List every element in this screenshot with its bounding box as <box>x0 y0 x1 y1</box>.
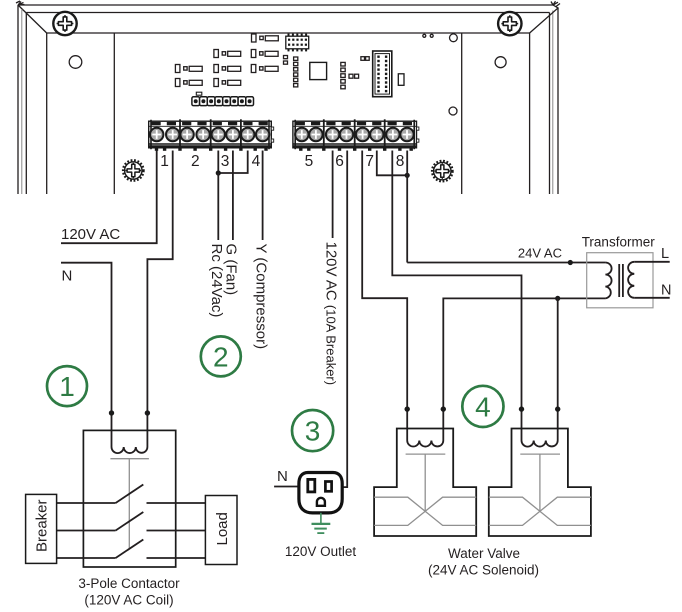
water valve 2 body <box>489 429 591 537</box>
pole 2 wire left <box>57 530 116 532</box>
junction dot valve2 right <box>555 406 560 411</box>
svg-text:N: N <box>62 268 73 285</box>
terminal block TB1 (terminals 1-4) <box>149 120 274 150</box>
jumper terminal 3 to terminal 4 <box>218 151 247 174</box>
water valve 1 stem <box>424 454 426 511</box>
wire valve 2 right <box>557 298 559 440</box>
svg-text:7: 7 <box>365 153 374 170</box>
callout 2 <box>201 336 241 376</box>
svg-text:2: 2 <box>191 153 200 170</box>
junction dot valve1 right <box>441 406 446 411</box>
junction dot transformer bottom <box>555 296 560 301</box>
enclosure inner panel <box>47 33 530 194</box>
transformer secondary winding <box>628 262 634 298</box>
enclosure corner hatch top-left <box>16 1 25 5</box>
smd column right <box>341 62 345 88</box>
load box <box>205 496 237 565</box>
enclosure outer frame <box>18 5 558 194</box>
svg-text:N: N <box>277 468 288 485</box>
enclosure corner hatch top-right <box>551 1 560 6</box>
jumper terminal 7 to terminal 8 <box>377 151 407 176</box>
callout 3 <box>292 410 333 451</box>
wire 120V AC breaker from terminal 6 <box>332 151 334 239</box>
wire N secondary <box>634 297 669 299</box>
outlet neutral slot <box>308 479 315 492</box>
svg-text:G (Fan): G (Fan) <box>223 244 240 296</box>
junction dot jumper 7-8 <box>405 173 410 178</box>
TB1 divider 2|3 <box>210 119 212 150</box>
outlet hot slot <box>325 482 331 492</box>
pcb plate edge left <box>113 33 115 194</box>
terminal block TB2 (terminals 5-8) <box>293 120 419 150</box>
water valve 1 crossover symbol <box>374 497 476 525</box>
component group row1 a <box>214 50 241 58</box>
contactor actuator link <box>128 459 130 549</box>
wire transformer primary bottom to valves <box>443 298 605 440</box>
svg-text:4: 4 <box>475 392 491 423</box>
wire outlet hot from terminal 6 right <box>342 151 347 488</box>
tiny rect above header row <box>196 92 202 95</box>
junction dot contactor coil left <box>109 410 114 415</box>
TB2 divider 7|8 <box>384 119 386 150</box>
water valve 1 solenoid coil <box>407 441 443 447</box>
wire N to outlet <box>274 486 299 488</box>
smd pair b <box>361 57 369 61</box>
svg-text:(24V AC Solenoid): (24V AC Solenoid) <box>428 562 539 577</box>
wire L <box>634 261 669 263</box>
svg-text:Breaker: Breaker <box>34 499 51 552</box>
svg-text:L: L <box>661 246 669 262</box>
TB1 divider 1|2 <box>179 119 181 150</box>
wire 120V AC hot from terminal 1 <box>61 151 157 244</box>
small component right of connector <box>398 74 404 86</box>
svg-text:8: 8 <box>396 153 405 170</box>
panel hole left <box>69 56 82 69</box>
svg-text:N: N <box>661 283 671 299</box>
TB2 screws <box>295 128 414 141</box>
transformer core <box>619 264 623 297</box>
capacitor pair small <box>284 56 288 65</box>
svg-text:Rc (24Vac): Rc (24Vac) <box>208 244 225 318</box>
board screw mid-right (knurled) <box>432 161 453 182</box>
breaker box <box>26 494 57 563</box>
svg-text:1: 1 <box>59 371 75 402</box>
pcb plate edge right <box>461 33 463 194</box>
smd column <box>294 57 298 87</box>
board screw mid-left (knurled) <box>123 160 144 181</box>
water valve 2 stem <box>539 454 541 511</box>
svg-text:3-Pole Contactor: 3-Pole Contactor <box>78 576 180 591</box>
IC U2 square <box>310 62 327 79</box>
panel hole small upper <box>450 34 458 42</box>
TB1 divider 3|4 <box>240 119 242 150</box>
svg-text:120V Outlet: 120V Outlet <box>285 544 357 559</box>
component group row2 b <box>214 65 241 73</box>
pole 2 wire right to load <box>147 530 206 532</box>
panel hole small lower <box>449 107 457 115</box>
wire N to contactor coil <box>61 263 112 447</box>
svg-text:24V AC: 24V AC <box>518 246 562 261</box>
contactor coil (120V AC) <box>112 447 148 453</box>
water valve 2 crossover symbol <box>489 497 591 525</box>
tiny hole a <box>423 34 426 37</box>
junction dot valve2 left <box>519 406 524 411</box>
wire valve 1 left from terminal 7 <box>362 151 407 441</box>
smd pair a <box>349 74 359 78</box>
water valve 2 solenoid coil <box>522 441 558 447</box>
TB2 divider 5|6 <box>323 119 325 150</box>
svg-text:Transformer: Transformer <box>582 235 656 250</box>
water valve 2 coil bar <box>520 453 560 455</box>
component group row0 <box>252 34 279 42</box>
TB1 screws <box>150 128 269 141</box>
pole 3 blade <box>116 540 144 559</box>
svg-text:3: 3 <box>305 416 321 447</box>
cover screw top-left <box>53 12 76 35</box>
IC U1 with pins <box>286 34 309 52</box>
svg-text:2: 2 <box>213 342 229 373</box>
header connector J1 <box>373 51 392 97</box>
outlet ground hole <box>317 498 325 506</box>
pole 1 blade <box>116 485 144 504</box>
svg-text:Load: Load <box>214 512 231 545</box>
svg-text:(120V AC Coil): (120V AC Coil) <box>84 592 173 607</box>
water valve 1 body <box>374 429 476 537</box>
component group row2 c <box>251 65 278 73</box>
callout 4 <box>462 386 503 427</box>
pole 2 blade <box>116 512 144 531</box>
component group row1 b <box>251 50 278 58</box>
contactor armature bar <box>110 458 148 460</box>
wire Rc from terminal 3 <box>217 173 219 240</box>
svg-text:6: 6 <box>335 153 344 170</box>
pole 1 wire left <box>57 502 116 504</box>
svg-text:120V AC (10A Breaker): 120V AC (10A Breaker) <box>322 242 339 386</box>
junction dot jumper 3-4 <box>216 170 221 175</box>
pole 3 wire left <box>57 557 116 559</box>
panel hole right upper <box>495 57 506 68</box>
wire Y from terminal 4 right <box>262 151 264 241</box>
junction dot valve1 left <box>405 406 410 411</box>
pole 3 wire right to load <box>147 557 206 559</box>
wire 24V AC from terminal 8 right to transformer <box>407 151 605 263</box>
tiny hole b <box>430 34 433 37</box>
component group row3 b <box>214 79 241 87</box>
contactor K1 box <box>83 430 175 567</box>
callout 1 <box>47 366 87 406</box>
cover screw top-right <box>498 12 521 35</box>
svg-text:Water Valve: Water Valve <box>448 546 520 561</box>
pole 1 wire right to load <box>147 502 206 504</box>
svg-text:Y (Compressor): Y (Compressor) <box>252 244 269 350</box>
outlet body <box>299 473 342 513</box>
transformer primary winding <box>605 263 611 299</box>
TB2 divider 6|7 <box>354 119 356 150</box>
svg-text:5: 5 <box>305 153 314 170</box>
ground symbol <box>312 513 331 533</box>
water valve 1 coil bar <box>406 453 446 455</box>
svg-text:3: 3 <box>221 153 230 170</box>
pin header row of 8 <box>192 97 254 106</box>
junction dot contactor coil right <box>145 410 150 415</box>
component group row3 a <box>175 79 202 87</box>
wire valve 2 left from terminal 8 <box>392 151 521 441</box>
svg-text:1: 1 <box>160 153 169 170</box>
junction dot 24V AC at transformer <box>568 260 573 265</box>
TB1 tabs <box>155 148 268 151</box>
svg-text:4: 4 <box>252 153 261 170</box>
component group row2 a <box>175 65 202 73</box>
svg-text:120V AC: 120V AC <box>61 226 120 243</box>
TB2 tabs <box>299 148 413 151</box>
transformer box <box>587 253 653 308</box>
wire G from terminal 3 right <box>232 151 234 241</box>
wire terminal 1 neutral down to contactor coil <box>147 151 172 448</box>
